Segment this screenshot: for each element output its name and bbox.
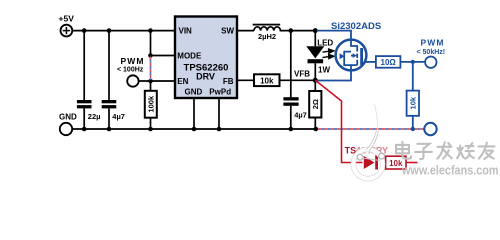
svg-text:+5V: +5V <box>59 13 75 23</box>
svg-text:10k: 10k <box>260 76 274 85</box>
svg-text:10k: 10k <box>408 96 417 109</box>
svg-text:LED: LED <box>317 38 333 47</box>
svg-text:4µ7: 4µ7 <box>294 111 307 120</box>
svg-text:PWM: PWM <box>121 56 145 66</box>
svg-text:4µ7: 4µ7 <box>112 112 125 121</box>
svg-text:GND: GND <box>59 113 77 122</box>
svg-text:PWM: PWM <box>421 37 445 47</box>
svg-text:2µH2: 2µH2 <box>258 32 276 41</box>
svg-text:EN: EN <box>177 77 188 86</box>
svg-text:VFB: VFB <box>294 70 310 79</box>
svg-text:2Ω: 2Ω <box>311 99 320 109</box>
svg-text:Si2302ADS: Si2302ADS <box>331 21 381 32</box>
svg-text:FB: FB <box>223 77 234 86</box>
svg-text:100k: 100k <box>147 95 156 113</box>
svg-text:SW: SW <box>221 27 234 36</box>
svg-text:PwPd: PwPd <box>209 88 231 97</box>
svg-text:DRV: DRV <box>196 71 215 81</box>
svg-text:< 100Hz: < 100Hz <box>117 67 144 74</box>
svg-text:www.elecfans.com: www.elecfans.com <box>401 164 498 178</box>
svg-text:VIN: VIN <box>179 27 193 36</box>
svg-text:MODE: MODE <box>177 52 202 61</box>
svg-text:1W: 1W <box>318 65 330 74</box>
svg-text:10k: 10k <box>389 159 403 168</box>
svg-text:10Ω: 10Ω <box>381 58 397 67</box>
svg-text:< 50kHz!: < 50kHz! <box>417 49 446 56</box>
svg-text:GND: GND <box>185 88 203 97</box>
svg-text:22µ: 22µ <box>88 112 101 121</box>
